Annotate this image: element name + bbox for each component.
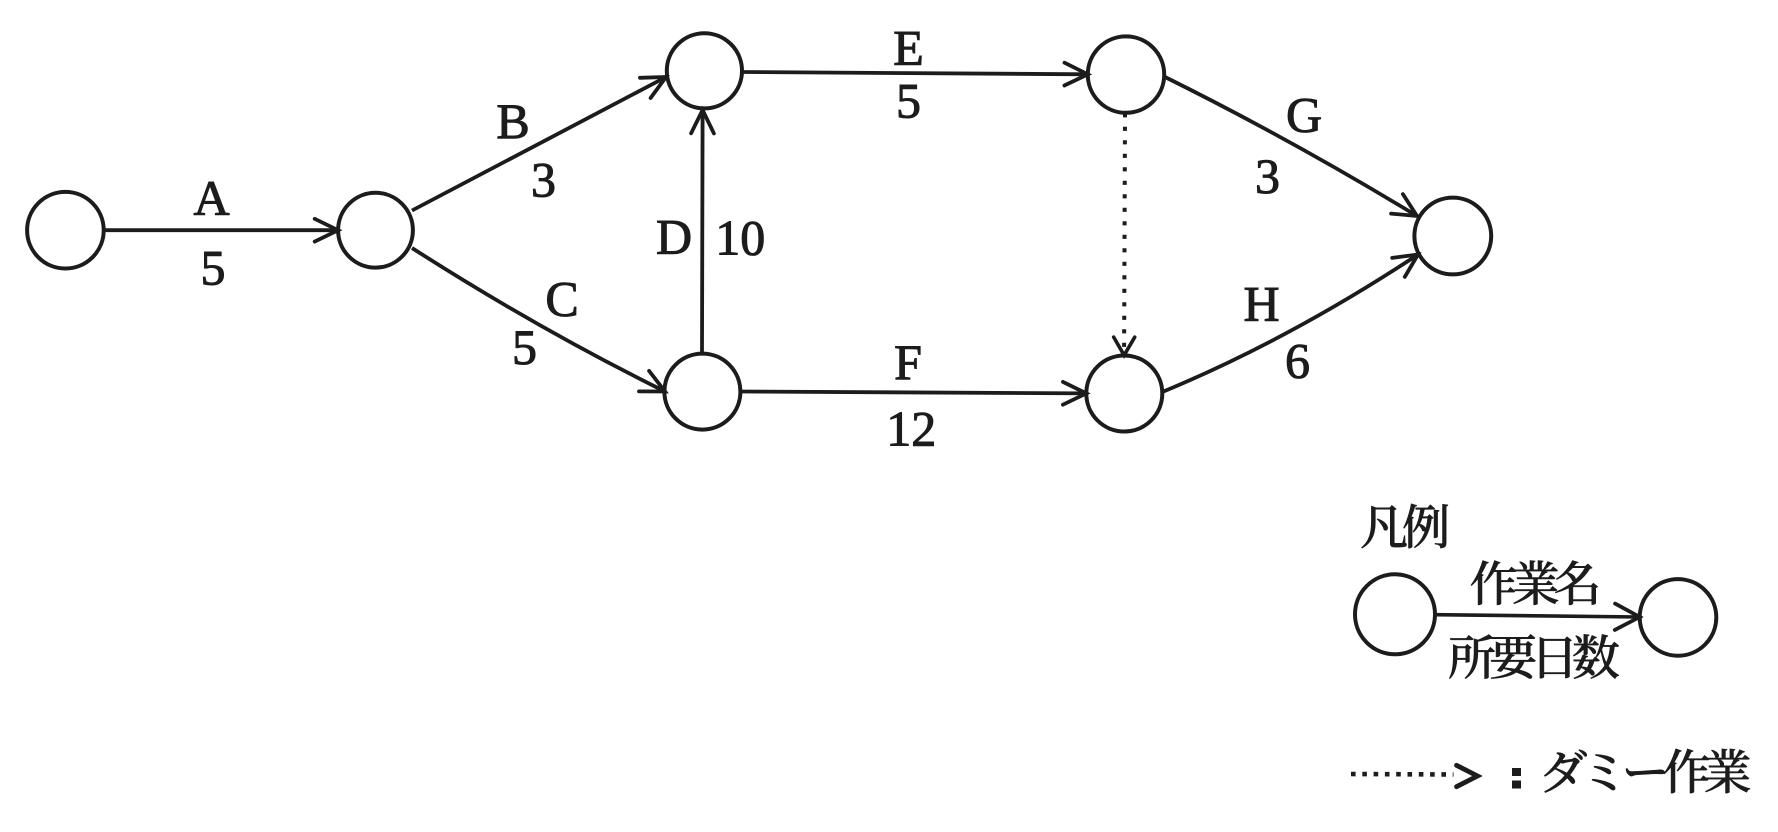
svg-text:H: H <box>1243 275 1279 331</box>
legend: sample end circle <box>1640 579 1717 656</box>
svg-text:F: F <box>894 334 922 390</box>
arrow: activity B from node2 to node3 <box>412 77 666 211</box>
arrow: activity G from node5 to node7 <box>1165 77 1417 216</box>
svg-text:5: 5 <box>201 240 226 296</box>
arrow: activity C from node2 to node4 <box>412 248 665 392</box>
node: event circle 3 (top middle) <box>667 33 742 108</box>
node: event circle 4 (bottom middle) <box>664 354 740 430</box>
svg-text:A: A <box>193 170 229 226</box>
node: event circle 6 (bottom right) <box>1086 356 1162 432</box>
legend: colon separator <box>1512 768 1521 776</box>
svg-text:E: E <box>893 20 924 76</box>
svg-text:5: 5 <box>896 73 921 129</box>
legend label: 所要日数 (required days) <box>1449 635 1494 679</box>
arrow: activity E from node3 to node5 <box>742 72 1088 74</box>
legend: dotted dummy-activity sample line <box>1351 772 1454 777</box>
arrow: activity H from node6 to node7 <box>1162 255 1418 393</box>
legend title 凡例 <box>1362 505 1407 548</box>
legend: sample start circle <box>1355 574 1435 654</box>
svg-text:3: 3 <box>531 152 556 208</box>
node: event circle 5 (top right) <box>1088 36 1164 112</box>
arrow: activity F from node4 to node6 <box>740 392 1086 394</box>
svg-text:D: D <box>656 208 692 264</box>
legend label: ダミー作業 (dummy activity) <box>1544 750 1586 793</box>
node: end event circle 7 <box>1414 198 1491 275</box>
legend: sample activity arrow <box>1435 615 1640 617</box>
svg-text:5: 5 <box>512 319 537 375</box>
legend: dummy arrow chevron <box>1457 765 1478 786</box>
svg-text:3: 3 <box>1255 148 1280 204</box>
svg-text:C: C <box>545 271 578 327</box>
legend label: 作業名 (activity name) <box>1471 561 1516 605</box>
arrow: dummy activity (dotted) from node5 down to node6 <box>1122 113 1127 352</box>
svg-text:B: B <box>496 93 529 149</box>
arrow: activity A from node1 to node2 <box>104 228 338 232</box>
svg-text:6: 6 <box>1285 333 1310 389</box>
svg-text:G: G <box>1286 87 1322 143</box>
arrow: activity D from node4 up to node3 <box>700 110 704 354</box>
node: event circle 2 <box>338 193 413 268</box>
svg-text:10: 10 <box>715 209 765 265</box>
node: start event circle 1 <box>27 192 104 269</box>
svg-text:12: 12 <box>886 400 936 456</box>
